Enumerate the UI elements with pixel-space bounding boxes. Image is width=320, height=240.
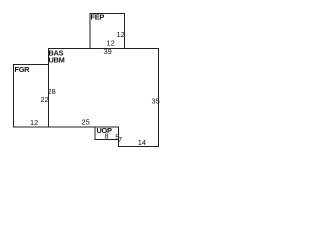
- FGR garage box: [14, 65, 49, 128]
- FEP porch box: [90, 14, 125, 49]
- svg-text:12: 12: [117, 30, 125, 39]
- svg-text:25: 25: [82, 117, 90, 126]
- svg-text:22: 22: [41, 95, 49, 104]
- svg-text:35: 35: [152, 97, 160, 106]
- svg-text:28: 28: [48, 87, 56, 96]
- svg-text:8: 8: [105, 131, 109, 140]
- svg-text:12: 12: [30, 118, 38, 127]
- svg-text:7: 7: [118, 135, 122, 144]
- svg-text:14: 14: [138, 138, 146, 147]
- svg-text:UBM: UBM: [49, 56, 65, 65]
- svg-text:39: 39: [104, 47, 112, 56]
- main building BAS/UBM outline: [49, 49, 159, 147]
- svg-text:FGR: FGR: [15, 65, 31, 74]
- UOP porch box: [95, 127, 119, 140]
- svg-text:FEP: FEP: [91, 13, 105, 22]
